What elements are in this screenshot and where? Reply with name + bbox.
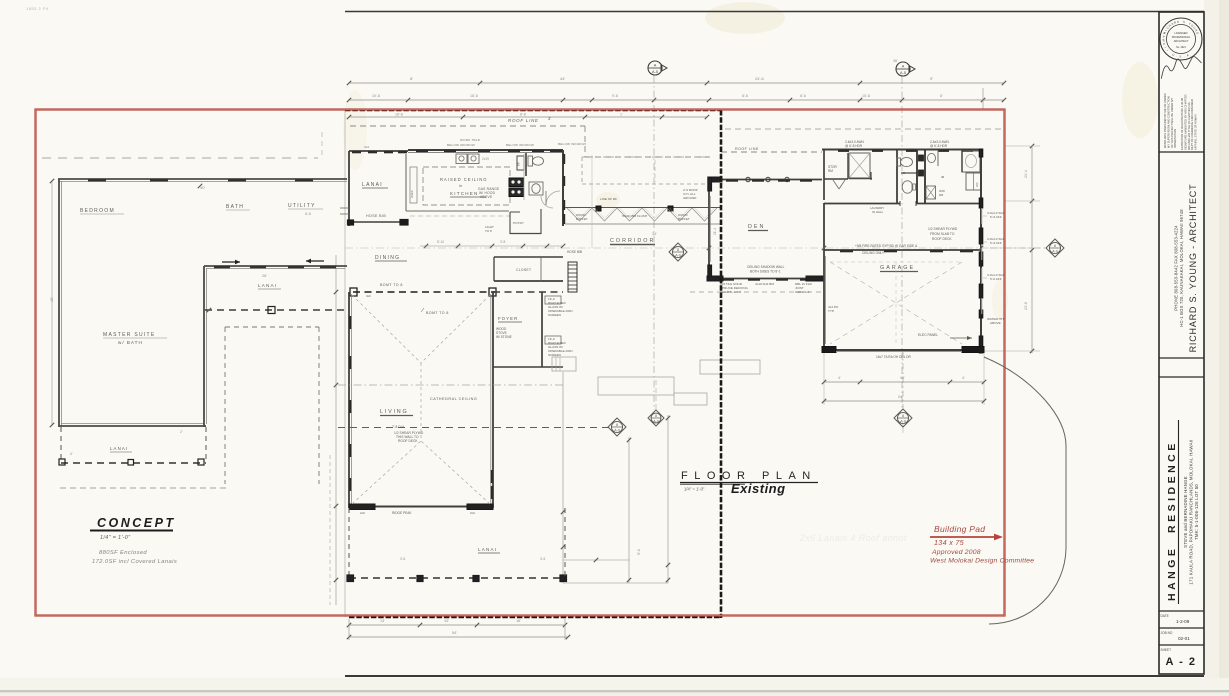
svg-text:23'-8: 23'-8 [1024,302,1028,310]
living east wall [492,292,494,508]
svg-text:4': 4' [70,452,73,456]
bath divider wall [961,150,963,172]
svg-text:A-9: A-9 [614,428,620,432]
garage door opening [836,351,962,353]
right dim extension lines [1004,145,1040,147]
svg-text:4': 4' [838,376,841,380]
grid line x902 (dash-dot) [901,77,903,410]
svg-text:16': 16' [516,619,521,623]
powder lav [902,181,913,193]
concept underline [90,530,173,532]
svg-text:FOYER: FOYER [498,316,518,321]
hall door swing [541,196,553,208]
svg-text:16x7 TA RA OH DNL DR: 16x7 TA RA OH DNL DR [876,355,912,359]
svg-text:10': 10' [50,297,54,302]
svg-text:A: A [902,65,905,69]
svg-text:10'-8: 10'-8 [862,94,870,98]
scan bottom green line [0,690,1229,692]
bath wc [528,156,533,166]
existing sheet edge right (heavy dashed) [720,110,723,618]
den west wall piers [708,177,712,191]
bottom dim line 1 [349,624,565,626]
deck marker stem [655,380,657,409]
kitchen sink [456,154,467,164]
den garage dashes [690,291,822,293]
kitchen counter west [405,154,407,211]
lanai small dashed outline [60,427,62,463]
foyer east wall [541,292,543,367]
svg-text:16': 16' [900,376,905,380]
svg-text:LANAI: LANAI [110,446,128,451]
svg-text:8: 8 [1054,244,1056,248]
linen closet [966,173,981,190]
bath block north wall [822,149,981,151]
bath door swing [546,191,560,205]
svg-text:8': 8' [410,76,413,81]
svg-text:WORK TBLD: WORK TBLD [460,138,481,142]
svg-text:BELOW WINDOW: BELOW WINDOW [558,142,586,146]
svg-text:3'-8: 3'-8 [500,240,505,244]
svg-text:1/4" = 1'-0": 1/4" = 1'-0" [684,487,705,492]
svg-text:2x19: 2x19 [482,157,489,161]
hall wall y203 [824,203,900,205]
kitchen island dashed [423,167,510,205]
garage X floor dashes [830,262,962,344]
garage centerline dash [902,350,904,409]
svg-text:24': 24' [898,395,903,399]
entry west wall [348,151,350,226]
svg-text:8: 8 [655,414,657,418]
svg-text:LINE OF RF: LINE OF RF [600,197,617,201]
addition wall window dashes inner [214,266,230,268]
svg-text:ARCHITECT: ARCHITECT [1174,39,1189,43]
svg-text:RESIDENCE: RESIDENCE [1166,440,1178,533]
bottom dim line 2 [349,636,568,638]
svg-text:BATH: BATH [226,204,244,210]
stor closet walls [823,150,825,200]
svg-text:A-9: A-9 [900,419,906,423]
bottom dim drop lines [348,619,350,640]
svg-text:SCREEN: SCREEN [548,313,561,317]
svg-text:in: in [459,184,462,188]
stain kitchen left [343,90,367,170]
dashed line below lanai y488 [60,487,226,489]
garage dim line 1 [824,381,984,383]
den north wall pier [708,177,722,182]
svg-text:BELOW WINDOW: BELOW WINDOW [506,143,534,147]
roof line dashed step [584,126,586,157]
svg-text:2x6: 2x6 [470,511,475,515]
svg-text:West Molokai Design Committee: West Molokai Design Committee [930,558,1034,565]
svg-text:HEAD BM FLUSH: HEAD BM FLUSH [622,214,647,218]
svg-text:8: 8 [677,248,679,252]
corridor truss zigzag [567,208,592,221]
range burners block [509,178,524,187]
deck vertical line x592 [591,155,593,248]
left dim dashes x330 [329,455,331,605]
svg-text:464 AND HAR TITLE 16 CHAPTER 1: 464 AND HAR TITLE 16 CHAPTER 114, [1187,101,1191,150]
entry step marks [340,207,349,209]
svg-text:Approved 2008: Approved 2008 [931,549,981,556]
svg-text:26': 26' [262,274,267,278]
svg-text:134 x 75: 134 x 75 [934,538,965,547]
svg-text:DATE: DATE [1161,614,1169,618]
svg-text:EXPIRATION OF REGISTRATION: 4-: EXPIRATION OF REGISTRATION: 4-30-08 [1180,97,1184,150]
living window dashes east [491,470,493,483]
bath west wall [525,153,527,176]
driveway curve [984,357,1066,624]
left dim line x336 [335,255,337,605]
shower pan [849,153,870,178]
svg-text:LANAI: LANAI [362,182,383,188]
hall opening ticks [899,201,901,206]
garage south piers [822,347,836,353]
svg-text:SHEET: SHEET [1161,648,1172,652]
svg-text:RAISED CEILING: RAISED CEILING [440,177,488,182]
svg-text:OBSERVATION: OBSERVATION [1173,129,1177,148]
svg-text:2x6 Lanais 4 Roof annot: 2x6 Lanais 4 Roof annot [799,533,907,543]
svg-text:HOSE BIB: HOSE BIB [366,214,386,218]
svg-text:3'-6: 3'-6 [540,557,545,561]
svg-text:CLOSET: CLOSET [516,268,531,272]
pantry walls [509,212,511,234]
svg-text:10': 10' [444,619,449,623]
grid dash y427-428 [338,427,612,429]
title underline [680,482,818,484]
entry top rail [349,150,408,152]
svg-text:13': 13' [380,619,385,623]
foyer steps [552,357,576,371]
existing-sheet left edge (faint) [344,110,346,617]
svg-text:ABOVE: ABOVE [990,321,1001,325]
svg-text:4x4: 4x4 [364,145,369,149]
marker diamond deck 1 [608,418,626,436]
red rect inner glow [36,110,1005,616]
mid deck step rects [700,360,760,374]
svg-text:BEDROOM: BEDROOM [80,208,115,214]
svg-text:BOMT TO 8: BOMT TO 8 [380,283,403,287]
living west wall [348,292,350,508]
garage south wall [824,349,984,351]
cathedral ceiling diagonals upper [352,295,421,363]
living lanai east dashes [564,508,566,578]
svg-text:HOSE BIB: HOSE BIB [567,250,582,254]
grid dash y248 right [990,247,1046,249]
garage dim extension lines [823,353,825,405]
svg-text:ROOF DECK: ROOF DECK [932,237,952,241]
deck dim vertical x629 [628,437,630,583]
garage dim line 2 [824,400,984,402]
svg-text:LIN: LIN [975,183,979,187]
svg-text:LANAI: LANAI [258,283,277,288]
svg-text:MASTER SUITE: MASTER SUITE [103,332,156,338]
svg-text:DINING: DINING [375,255,400,261]
svg-text:9'-6: 9'-6 [637,549,641,555]
foyer south wall [493,366,563,368]
grid dash y385 [338,384,563,386]
marker diamond deck 2 [648,410,664,426]
svg-text:No. 4621: No. 4621 [1176,46,1186,49]
svg-text:ROOF DECK: ROOF DECK [398,439,418,443]
den interior dim marks [707,246,711,250]
kitchen east wall [562,150,564,226]
svg-text:CEILING SHADOW WALL: CEILING SHADOW WALL [747,265,785,269]
svg-text:9': 9' [930,76,933,81]
svg-text:34': 34' [652,232,657,236]
svg-text:5'-6 AFF: 5'-6 AFF [990,277,1002,281]
svg-text:DEPT OF COMMERCE AND CONSUMER: DEPT OF COMMERCE AND CONSUMER [1190,99,1194,150]
addition wall window dashes north [88,179,106,181]
svg-text:KITCHEN: KITCHEN [450,191,479,196]
svg-text:3'-6: 3'-6 [400,557,405,561]
svg-text:SCREEN: SCREEN [548,353,561,357]
svg-text:PROFESSIONAL: PROFESSIONAL [1172,36,1191,39]
svg-text:W/ STONE: W/ STONE [496,335,512,339]
svg-text:@ 6'-8 HDR: @ 6'-8 HDR [930,144,948,148]
svg-text:8: 8 [616,423,618,427]
existing sheet edge bottom (heavy dashed) [349,616,721,619]
svg-text:A: A [654,64,657,68]
stor door V swing [833,180,839,189]
svg-text:S: S [1179,54,1181,58]
kitchen north wall [408,149,563,151]
deck dim horizontal y583 [563,582,668,584]
svg-text:A-5: A-5 [900,71,906,75]
svg-text:1-2-09: 1-2-09 [1176,619,1190,624]
door arrow left (lanai) [306,260,324,262]
deck step rect 2 [674,393,707,405]
svg-text:A-9: A-9 [1052,249,1058,253]
svg-text:JOB NO: JOB NO [1161,631,1173,635]
living south wall [349,506,493,508]
foyer north wall [493,291,563,293]
grid dash-dot y248 [345,247,1032,249]
svg-text:4x6: 4x6 [366,294,371,298]
svg-text:8'-6: 8'-6 [742,94,748,98]
svg-text:LINEN: LINEN [410,190,414,198]
driveway inner corner [1059,469,1142,471]
east wall window gaps [981,208,983,224]
beam dashed line y310 with post [205,309,345,311]
svg-text:HC-1 BOX 720, KAUNAKAKAI,: HC-1 BOX 720, KAUNAKAKAI, MOLOKAI, HAWAI… [1179,209,1184,327]
svg-text:9'-8: 9'-8 [612,94,618,98]
svg-text:ELEC PANEL: ELEC PANEL [918,333,938,337]
svg-text:CATHEDRAL CEILING: CATHEDRAL CEILING [430,397,477,401]
right dim line vertical [1031,146,1033,353]
powder wc [897,158,901,166]
svg-text:21'-4: 21'-4 [713,228,717,235]
svg-text:CONCEPT: CONCEPT [97,516,176,530]
lanai small posts [59,459,65,465]
foyer window seat [545,296,561,304]
svg-text:RICHARD S. YOUNG - ARCHITE: RICHARD S. YOUNG - ARCHITECT [1188,184,1198,353]
deck dim vertical x563 [562,372,564,583]
svg-text:LICENSED: LICENSED [1175,31,1188,35]
svg-text:171 KAULA ROAD, PAPOHAKU RANC: 171 KAULA ROAD, PAPOHAKU RANCHLANDS, MOL… [1189,439,1194,584]
svg-text:OF THIS PROJECT WILL BE UNDER: OF THIS PROJECT WILL BE UNDER MY [1170,98,1174,148]
top dim line lower [349,99,1004,101]
svg-text:880SF Enclosed: 880SF Enclosed [99,550,147,556]
grid bubble A at x654 [648,61,662,75]
svg-text:SIGNATURE MANDATED BY HRS CHAP: SIGNATURE MANDATED BY HRS CHAPTER [1183,95,1187,150]
svg-text:2': 2' [180,430,183,434]
bath2 shower [962,151,980,172]
existing sheet edge top (heavy dashed) [345,109,721,112]
svg-text:8'-6: 8'-6 [800,94,806,98]
living south wall dark piers [349,504,375,510]
svg-text:1': 1' [620,113,623,117]
svg-text:5'-6 AFF: 5'-6 AFF [990,215,1002,219]
beam dashed y292 [353,291,495,293]
paper right scan edge [1204,0,1229,696]
house east wall [980,149,982,353]
svg-text:w/ BATH: w/ BATH [118,340,143,345]
svg-text:TYP: TYP [828,309,834,313]
svg-text:4': 4' [962,376,965,380]
svg-text:A-5: A-5 [652,70,658,74]
living lanai posts [347,575,354,582]
svg-text:LIVING: LIVING [380,409,408,415]
svg-text:1/4" = 1'-0": 1/4" = 1'-0" [100,535,131,541]
sheet top border line [345,11,1204,13]
bath lav [529,182,543,195]
living lanai bottom dashes [349,577,565,579]
svg-text:3': 3' [548,116,551,121]
svg-text:18'-8: 18'-8 [395,113,403,117]
svg-text:5'-10: 5'-10 [437,240,444,244]
sgd leader lines [983,215,987,217]
svg-text:BELOW WINDOW: BELOW WINDOW [447,143,475,147]
svg-text:WORK WAS PREPARED BY ME OR UND: WORK WAS PREPARED BY ME OR UNDER [1163,93,1167,148]
deck dim vertical x668 [667,415,669,583]
entry bottom wall [349,221,408,223]
svg-text:8'-8: 8'-8 [520,113,526,117]
svg-text:24'-6: 24'-6 [755,76,765,81]
svg-text:ABOVE: ABOVE [480,195,493,199]
den west wall [708,179,710,279]
corridor top line [565,207,721,209]
top dim chain below red [349,116,707,118]
top dim line upper [349,82,1004,84]
red building pad rectangle [36,110,1005,616]
svg-text:HANGE: HANGE [1166,546,1178,601]
stain garage right [992,280,1008,320]
svg-text:21'-4: 21'-4 [1024,170,1028,178]
svg-text:GARAGE: GARAGE [880,265,915,271]
svg-text:10'-8: 10'-8 [372,94,380,98]
svg-text:@ 6'-8 HDR: @ 6'-8 HDR [845,144,863,148]
plumbing wall [916,150,918,203]
svg-text:36': 36' [893,59,898,63]
svg-text:PNTRY: PNTRY [513,221,524,225]
deck step rect 1 [598,377,674,395]
svg-text:TO 8: TO 8 [485,229,492,233]
addition south wall (master suite) [59,425,206,427]
svg-text:A - 2: A - 2 [1166,656,1197,668]
den south wall [709,278,824,280]
garage centerline marker [894,409,912,427]
architect seal [1160,18,1202,60]
dashed existing-lanai rectangle [224,327,226,484]
architect signature [1159,56,1203,79]
powder west wall [896,150,898,203]
svg-text:ROOF LINE: ROOF LINE [735,147,759,151]
powder partition [901,172,917,174]
marker diamond right margin [1046,239,1064,257]
svg-text:8': 8' [940,94,943,98]
house east wall piers [979,149,983,157]
svg-text:54': 54' [452,631,457,635]
bath2 lav counter [937,150,939,166]
addition left dim line [51,181,53,425]
svg-text:PHONE 808-553-8442 FA: PHONE 808-553-8442 FAX 808-553-4224 [1174,225,1179,311]
stair block [568,262,577,292]
kitchen counter south [406,210,509,212]
grid bubble B at x902 [896,62,910,76]
svg-text:BOTH SIDES TO 8'-1: BOTH SIDES TO 8'-1 [750,270,781,274]
marker diamond corridor [669,243,687,261]
living lanai west dashes [348,508,350,578]
stain corridor [596,192,620,208]
svg-text:+5/8 FIRE-RATED GYP BD @ GAR S: +5/8 FIRE-RATED GYP BD @ GAR SIDE & [855,244,918,248]
svg-text:4x10 FLR BM: 4x10 FLR BM [755,282,774,286]
addition north wall [58,178,347,180]
svg-text:AFFAIRS, STATE OF HAWAII: AFFAIRS, STATE OF HAWAII [1194,114,1198,150]
living window dashes west [349,316,351,329]
svg-text:18'-8: 18'-8 [470,94,478,98]
svg-text:BUFFET: BUFFET [576,217,588,221]
svg-text:CEILING ONLY: CEILING ONLY [862,251,885,255]
sheet bottom border line [345,675,1204,677]
svg-text:1853 2 P4: 1853 2 P4 [26,6,49,11]
svg-text:IN HALL: IN HALL [872,210,884,214]
svg-text:44': 44' [560,76,565,81]
svg-text:5'-6 AFF: 5'-6 AFF [990,241,1002,245]
title block frame [1159,12,1204,674]
svg-text:BOMT TO 8: BOMT TO 8 [426,311,449,315]
roofline dash right top [721,151,822,153]
fridge cabinet [517,156,524,170]
addition inner wall bedroom/lanai [204,265,347,267]
stain top middle [705,2,785,34]
existing roofline dashed on overlay [42,157,318,159]
cathedral ridge line [420,363,422,441]
garage apron lines [830,261,962,263]
svg-text:RIDGE PEAK: RIDGE PEAK [392,511,412,515]
svg-text:02-01: 02-01 [1178,636,1190,641]
project title underline [1178,420,1180,604]
svg-text:172.0SF incl Covered Lanais: 172.0SF incl Covered Lanais [92,559,177,565]
addition west wall [58,179,60,427]
svg-text:A-9: A-9 [675,253,681,257]
closet walls below kitchen [494,256,563,258]
svg-text:STEVE and BERNADINE HANGE: STEVE and BERNADINE HANGE [1183,476,1188,548]
addition east wall of master leg [203,266,205,427]
svg-text:ROOF LINE: ROOF LINE [508,118,539,123]
svg-text:RM: RM [828,169,833,173]
svg-text:FROM SLAB TO: FROM SLAB TO [930,232,955,236]
svg-text:BR: BR [517,162,521,166]
stain top right [1122,62,1158,138]
svg-text:LANAI: LANAI [478,547,497,552]
cathedral ceiling diagonals lower [352,441,421,504]
corridor bottom line [565,223,721,225]
deck dim horizontal y560 [563,559,629,561]
svg-text:8: 8 [902,414,904,418]
grid tick above red x983 [982,88,984,110]
garage north wall [824,249,981,251]
svg-text:AROUND: AROUND [683,196,697,200]
